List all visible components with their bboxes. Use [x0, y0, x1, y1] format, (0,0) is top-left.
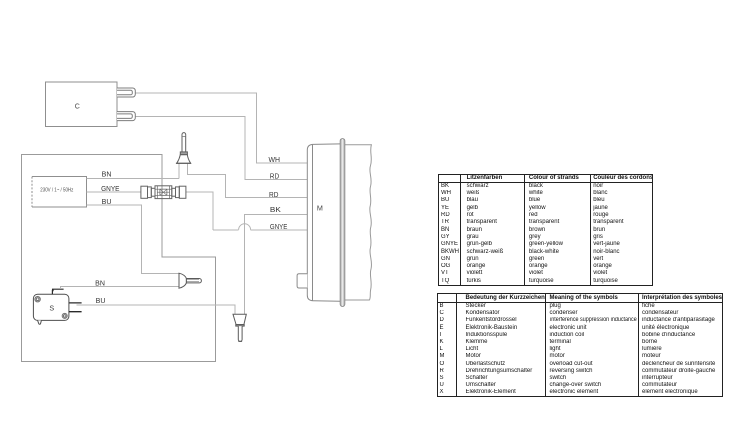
svg-text:230V / 1~ / 50Hz: 230V / 1~ / 50Hz [40, 188, 73, 194]
svg-text:WH: WH [269, 157, 281, 164]
svg-text:BU: BU [102, 199, 112, 206]
svg-text:S: S [49, 304, 54, 313]
svg-text:BN: BN [102, 171, 112, 178]
svg-text:GNYE: GNYE [270, 224, 288, 231]
svg-text:BK: BK [270, 207, 281, 214]
svg-text:C: C [75, 103, 80, 110]
svg-text:BU: BU [96, 298, 106, 305]
svg-text:BN: BN [95, 280, 105, 287]
svg-text:RD: RD [269, 192, 278, 199]
svg-text:M: M [317, 203, 323, 212]
svg-text:RD: RD [270, 173, 279, 180]
svg-text:GNYE: GNYE [101, 186, 120, 193]
